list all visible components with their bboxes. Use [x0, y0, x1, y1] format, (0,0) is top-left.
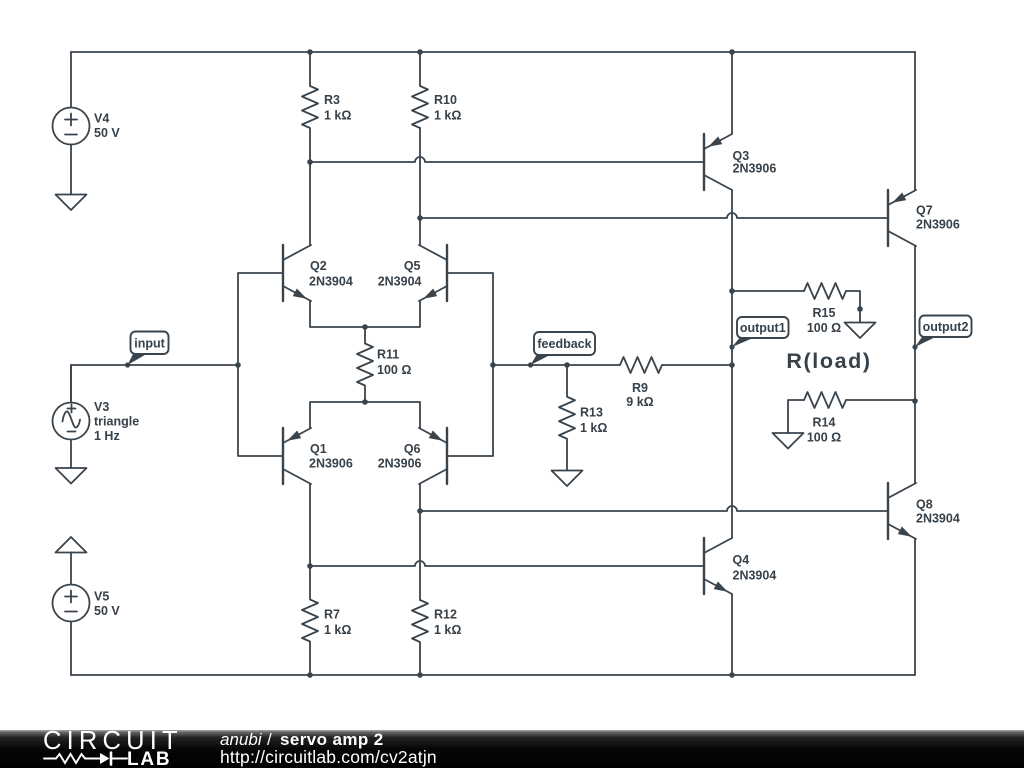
- wire right base column (Q5 base to Q6 base): [447, 273, 493, 456]
- junction bottom rail / R7: [307, 672, 313, 678]
- wire Q6 collector to Q8 base (hop over Q4 collector column): [420, 506, 888, 511]
- wire V5 to power symbol: [70, 553, 72, 585]
- wire top +50V rail: [71, 51, 915, 53]
- svg-text:R9: R9: [632, 381, 648, 395]
- junction R15 ground stub: [857, 306, 863, 312]
- svg-text:1 kΩ: 1 kΩ: [324, 108, 351, 122]
- svg-text:R13: R13: [580, 406, 603, 420]
- svg-text:R(load): R(load): [786, 349, 871, 373]
- svg-text:R12: R12: [434, 608, 457, 622]
- svg-text:2N3904: 2N3904: [309, 275, 353, 289]
- svg-text:100 Ω: 100 Ω: [807, 321, 841, 335]
- wire x310 Q1 collector to R7: [309, 484, 311, 566]
- svg-text:LAB: LAB: [127, 749, 171, 768]
- svg-text:50 V: 50 V: [94, 126, 120, 140]
- resistor R10: [412, 52, 428, 128]
- node output2 flag: [915, 337, 936, 347]
- transistor Q7: [887, 190, 889, 246]
- wire x420 Q6 collector to R12: [419, 484, 421, 600]
- svg-text:2N3906: 2N3906: [378, 457, 422, 471]
- svg-text:9 kΩ: 9 kΩ: [626, 395, 653, 409]
- junction R9 / output1 column: [729, 362, 735, 368]
- svg-text:1 kΩ: 1 kΩ: [580, 421, 607, 435]
- wire output2 column (Q7 collector to Q8 collector): [914, 246, 916, 483]
- wire Q2/Q5 emitter bus: [310, 301, 420, 327]
- svg-text:feedback: feedback: [537, 337, 591, 351]
- junction R11 bottom: [362, 399, 368, 405]
- wire Q4 emitter to bottom rail: [731, 594, 733, 675]
- junction top rail / R10: [417, 49, 423, 55]
- wire x420 R10 span and Q5 collector: [419, 128, 421, 245]
- svg-text:2N3906: 2N3906: [916, 218, 960, 232]
- svg-text:1 Hz: 1 Hz: [94, 429, 120, 443]
- transistor Q2: [282, 245, 284, 301]
- wire input net horizontal: [71, 365, 238, 403]
- wire V4 to ground: [70, 145, 72, 195]
- svg-text:V5: V5: [94, 590, 109, 604]
- resistor R13: [559, 365, 575, 471]
- transistor Q3: [703, 134, 705, 190]
- node feedback flag: [531, 355, 551, 365]
- svg-text:1 kΩ: 1 kΩ: [434, 108, 461, 122]
- svg-text:50 V: 50 V: [94, 604, 120, 618]
- junction bottom rail / R12: [417, 672, 423, 678]
- svg-text:Q7: Q7: [916, 204, 933, 218]
- wire Q8 emitter to bottom rail: [914, 539, 916, 675]
- transistor Q5: [446, 245, 448, 301]
- junction R7 / Q4 base wire: [307, 563, 313, 569]
- svg-text:R7: R7: [324, 608, 340, 622]
- resistor R7: [302, 566, 318, 675]
- svg-text:V4: V4: [94, 112, 109, 126]
- junction top rail / R3: [307, 49, 313, 55]
- wire bottom -50V rail: [71, 674, 915, 676]
- ground below R14: [773, 433, 804, 449]
- svg-text:R11: R11: [377, 348, 399, 362]
- footer bar: [0, 730, 1024, 768]
- junction R14 / output2 column: [912, 398, 918, 404]
- node output1 flag: [732, 338, 753, 347]
- svg-text:Q1: Q1: [310, 442, 327, 456]
- wire left base column (Q2 base to Q1 base): [238, 273, 283, 456]
- svg-text:output1: output1: [740, 321, 786, 335]
- svg-text:2N3906: 2N3906: [733, 162, 777, 176]
- transistor Q8: [887, 483, 889, 539]
- node input flag: [128, 354, 147, 365]
- wire V3 top to input net: [70, 365, 72, 403]
- junction R13 top: [564, 362, 570, 368]
- svg-text:Q4: Q4: [733, 553, 750, 567]
- junction R10 / Q7 base wire: [417, 215, 423, 221]
- resistor R3: [302, 52, 318, 162]
- junction R3 / Q3 base wire: [307, 159, 313, 165]
- svg-text:Q6: Q6: [404, 442, 421, 456]
- resistor R14: [788, 400, 804, 433]
- junction Q6 collector / Q8 base wire: [417, 508, 423, 514]
- wire R7 top to Q4 base (hop over R12 column): [310, 561, 704, 566]
- junction feedback / base column: [490, 362, 496, 368]
- svg-text:Q8: Q8: [916, 498, 933, 512]
- svg-text:2N3904: 2N3904: [916, 512, 960, 526]
- svg-text:R10: R10: [434, 93, 457, 107]
- wire R10 to Q7 base (hop over Q3 collector column): [420, 213, 888, 218]
- svg-text:Q2: Q2: [310, 259, 327, 273]
- svg-text:output2: output2: [923, 320, 969, 334]
- wire Q3 emitter to top rail: [731, 52, 733, 134]
- ground below R15: [845, 323, 876, 339]
- resistor R12: [412, 600, 428, 675]
- voltage source V3 (triangle): [53, 403, 90, 440]
- svg-text:2N3904: 2N3904: [378, 275, 422, 289]
- junction R15 / output1 column: [729, 288, 735, 294]
- wire Q7 emitter to top rail: [914, 52, 916, 190]
- junction bottom rail / Q4 emitter: [729, 672, 735, 678]
- voltage source V5: [53, 585, 90, 622]
- svg-text:100 Ω: 100 Ω: [807, 431, 841, 445]
- ground below R13: [552, 471, 583, 487]
- wire R9 right to output1 column: [663, 364, 732, 366]
- wire x310 R3 to Q2 collector: [309, 162, 311, 245]
- resistor R11: [357, 327, 373, 402]
- svg-text:R3: R3: [324, 93, 340, 107]
- transistor Q4: [703, 538, 705, 594]
- wire V5 to bottom rail: [70, 622, 72, 676]
- resistor R9: [619, 357, 663, 373]
- wire Q1/Q6 emitter bus: [310, 402, 420, 428]
- svg-text:100 Ω: 100 Ω: [377, 363, 411, 377]
- wire R3 bottom to Q3 base (hop over R10 column): [310, 157, 704, 162]
- ground below V4: [56, 195, 87, 211]
- svg-text:2N3904: 2N3904: [733, 569, 777, 583]
- resistor R15: [732, 290, 804, 292]
- junction input / base column: [235, 362, 241, 368]
- transistor Q6: [446, 428, 448, 484]
- svg-text:R15: R15: [813, 306, 836, 320]
- svg-text:R14: R14: [813, 416, 836, 430]
- wire output1 column (Q3 collector to Q4 collector): [731, 190, 733, 538]
- voltage source V4: [53, 108, 90, 145]
- wire V3 to ground: [70, 440, 72, 469]
- CircuitLab logo resistor-diode glyph: [44, 754, 127, 763]
- svg-text:Q5: Q5: [404, 259, 421, 273]
- transistor Q1: [282, 428, 284, 484]
- junction top rail / Q3 emitter: [729, 49, 735, 55]
- wire feedback net: [493, 364, 619, 366]
- power symbol above V5: [56, 537, 87, 553]
- svg-text:triangle: triangle: [94, 415, 139, 429]
- svg-text:http://circuitlab.com/cv2atjn: http://circuitlab.com/cv2atjn: [220, 747, 437, 767]
- svg-text:V3: V3: [94, 400, 109, 414]
- wire V4 to top rail: [70, 52, 72, 108]
- svg-text:input: input: [134, 336, 165, 350]
- junction R11 top: [362, 324, 368, 330]
- svg-text:1 kΩ: 1 kΩ: [324, 623, 351, 637]
- svg-text:1 kΩ: 1 kΩ: [434, 623, 461, 637]
- svg-text:2N3906: 2N3906: [309, 457, 353, 471]
- ground below V3: [56, 468, 87, 484]
